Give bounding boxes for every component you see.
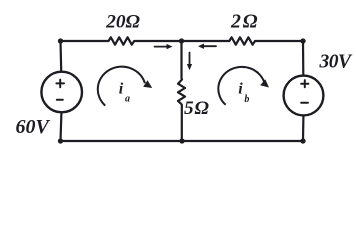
svg-text:30V: 30V — [319, 52, 354, 73]
svg-text:i: i — [119, 81, 124, 98]
svg-text:b: b — [244, 94, 249, 105]
svg-text:60V: 60V — [16, 116, 51, 138]
svg-text:i: i — [238, 81, 243, 98]
svg-text:5Ω: 5Ω — [184, 98, 210, 119]
svg-text:2Ω: 2Ω — [230, 11, 259, 33]
svg-text:20Ω: 20Ω — [105, 11, 140, 32]
svg-text:a: a — [125, 93, 130, 104]
